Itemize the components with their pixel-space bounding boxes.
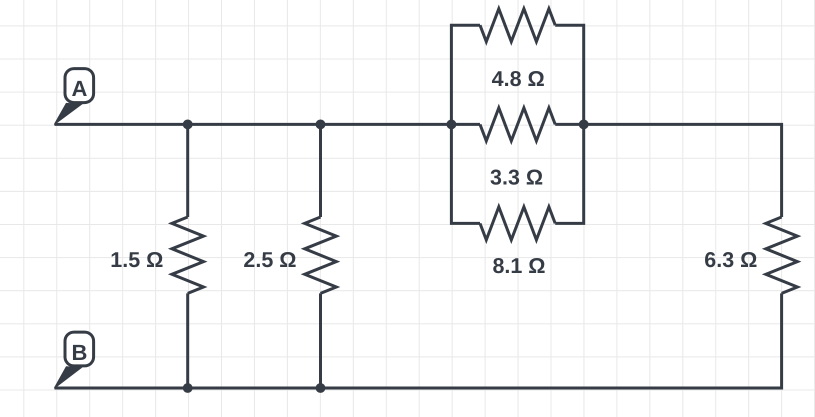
- wire bottom: R2 to bottom-right corner at R5: [321, 293, 782, 388]
- wire top: R2 to parallel block left node: [321, 123, 452, 126]
- junction top wire at R1: [183, 120, 193, 130]
- resistor R1 1.5 ohm (left vertical): [172, 124, 204, 388]
- svg-text:3.3 Ω: 3.3 Ω: [490, 166, 543, 190]
- resistor R2 2.5 ohm (second vertical): [305, 124, 337, 388]
- svg-text:B: B: [71, 340, 87, 365]
- junction parallel block left node: [447, 120, 457, 130]
- svg-text:A: A: [71, 76, 87, 101]
- node B terminal label: [54, 332, 93, 388]
- wire bottom: R1 to R2: [188, 387, 321, 390]
- node A terminal label: [54, 69, 93, 125]
- resistor R5 6.3 ohm (right vertical): [766, 217, 798, 293]
- junction parallel block right node: [579, 120, 589, 130]
- wire top: parallel block right node to top-right corner and down to R5: [584, 124, 782, 217]
- parallel block left bus wire: [451, 25, 480, 223]
- svg-text:2.5 Ω: 2.5 Ω: [243, 248, 296, 272]
- wire top: R1 to R2: [188, 123, 321, 126]
- wire top: node A to R1: [55, 123, 188, 126]
- resistor R4 4.8 ohm (top of parallel block): [480, 9, 555, 42]
- svg-text:4.8 Ω: 4.8 Ω: [492, 67, 545, 91]
- junction bottom wire at R2: [316, 383, 326, 393]
- junction top wire at R2: [316, 120, 326, 130]
- junction bottom wire at R1: [183, 383, 193, 393]
- svg-text:6.3 Ω: 6.3 Ω: [704, 248, 757, 272]
- wire bottom: node B to R1: [55, 387, 188, 390]
- resistor R3 3.3 ohm (middle of parallel block): [451, 108, 583, 141]
- parallel block right bus wire: [555, 25, 584, 223]
- resistor R6 8.1 ohm (bottom of parallel block): [480, 207, 555, 240]
- svg-text:1.5 Ω: 1.5 Ω: [110, 248, 163, 272]
- svg-text:8.1 Ω: 8.1 Ω: [492, 254, 545, 278]
